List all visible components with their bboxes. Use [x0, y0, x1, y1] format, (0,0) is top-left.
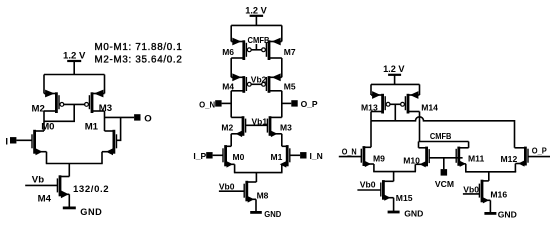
node Vb bias (amp1) — [25, 174, 57, 185]
label M9 (amp3) — [373, 154, 385, 164]
svg-text:M8: M8 — [257, 190, 269, 200]
svg-text:M4: M4 — [38, 194, 52, 205]
transistor M11 (amp3 NMOS) — [456, 147, 468, 167]
svg-text:M7: M7 — [284, 47, 296, 57]
svg-text:M2-M3: 35.64/0.2: M2-M3: 35.64/0.2 — [95, 54, 183, 65]
annotation M2-M3 sizing — [95, 54, 183, 65]
wire VDD rail (amp3) — [371, 83, 420, 85]
svg-text:132/0.2: 132/0.2 — [73, 184, 109, 195]
label M7 (amp2) — [284, 47, 296, 57]
node Vb0 bias left (amp3) — [357, 179, 381, 190]
wire tail node (amp2) — [234, 164, 283, 182]
svg-text:M0: M0 — [41, 122, 54, 133]
wire M4 source to ground (amp1) — [68, 194, 70, 208]
label M1 (amp1) — [85, 122, 99, 133]
label M6 (amp2) — [222, 47, 234, 57]
transistor M1 (amp2 NMOS) — [280, 145, 290, 168]
svg-text:GND: GND — [264, 209, 281, 219]
node VCM input (amp3) — [429, 158, 463, 189]
wire tail node (amp1) — [46, 152, 103, 177]
power VDD symbol (amp2) — [250, 16, 264, 26]
svg-text:Vb0: Vb0 — [219, 182, 235, 192]
svg-text:I_N: I_N — [310, 151, 323, 161]
annotation M0-M1 sizing — [95, 42, 183, 53]
svg-text:O_N: O_N — [342, 147, 357, 157]
node Vb0 bias right (amp3) — [463, 184, 480, 194]
svg-text:CMFB: CMFB — [248, 35, 270, 45]
svg-text:M4: M4 — [222, 82, 234, 92]
label M8 (amp2) — [257, 190, 269, 200]
label GND left (amp3) — [404, 209, 423, 219]
svg-text:M3: M3 — [99, 103, 112, 114]
power VDD symbol (amp3) — [388, 75, 401, 85]
transistor M3 (amp1 PMOS) — [85, 75, 105, 114]
wire output node to O (amp1) — [105, 116, 135, 118]
svg-text:Vb0: Vb0 — [360, 179, 376, 189]
wire M4 drain to O_N node (amp2) — [230, 91, 232, 118]
svg-text:M9: M9 — [373, 154, 385, 164]
node CMFB output wire (amp3) — [419, 141, 469, 143]
ground symbol (amp1) — [63, 206, 76, 209]
transistor M8 (amp2 NMOS) — [244, 181, 256, 203]
svg-text:M10: M10 — [403, 155, 420, 165]
label M3 (amp1) — [99, 103, 112, 114]
svg-text:1.2 V: 1.2 V — [245, 5, 267, 15]
wire M2 drain to M0 drain (amp1) — [43, 111, 45, 131]
transistor M10 (amp3 NMOS) — [415, 147, 429, 168]
label CMFB (amp3) — [430, 131, 452, 141]
wire VDD rail (amp1) — [44, 74, 105, 76]
node Vb2 bias (amp2) — [251, 74, 267, 84]
wire tail node left pair (amp3) — [373, 164, 416, 181]
wire M9/M12 drain rail with hop (amp3) — [371, 117, 515, 148]
transistor M4 (amp1 NMOS) — [57, 175, 69, 198]
power VDD symbol (amp1) — [67, 61, 81, 75]
wire mirror gates diode tap (amp3) — [389, 104, 401, 121]
wire M2 source to M0 drain (amp2) — [230, 134, 232, 147]
label GND (amp1) — [80, 207, 102, 217]
label M13 (amp3) — [361, 102, 378, 112]
node O_N output (amp2) — [199, 99, 231, 109]
wire M6 drain to M4 source (amp2) — [230, 58, 232, 77]
label M15 (amp3) — [396, 193, 413, 203]
node I_N input (amp2) — [290, 151, 323, 161]
wire M3 source to M1 drain (amp2) — [281, 134, 283, 147]
label M4 (amp1) — [38, 194, 52, 205]
node CMFB input (amp2) — [248, 35, 270, 50]
svg-text:M3: M3 — [280, 123, 292, 133]
label M0 (amp1) — [41, 122, 54, 133]
transistor M0 (amp2 NMOS) — [223, 145, 235, 168]
ground symbol right (amp3) — [484, 212, 496, 215]
power VDD 1.2V label (amp3) — [383, 64, 405, 74]
wire tail node right pair (amp3) — [465, 164, 516, 181]
wire M16 source to ground (amp3) — [489, 200, 491, 213]
transistor M15 (amp3 NMOS) — [381, 180, 394, 201]
svg-text:M12: M12 — [501, 154, 518, 164]
wire M10 drain riser (amp3) — [418, 142, 420, 148]
svg-text:M14: M14 — [421, 102, 438, 112]
label M10 (amp3) — [403, 155, 420, 165]
svg-text:GND: GND — [404, 209, 423, 219]
svg-text:M15: M15 — [396, 193, 413, 203]
svg-text:M6: M6 — [222, 47, 234, 57]
node I input (amp1) — [5, 136, 32, 147]
label M12 (amp3) — [501, 154, 518, 164]
svg-text:Vb: Vb — [32, 174, 44, 185]
svg-text:O_P: O_P — [301, 99, 318, 109]
svg-text:M0-M1: 71.88/0.1: M0-M1: 71.88/0.1 — [95, 42, 183, 53]
svg-text:1.2 V: 1.2 V — [63, 50, 86, 61]
svg-text:O: O — [144, 113, 152, 124]
svg-text:Vb2: Vb2 — [251, 74, 267, 84]
transistor M6 (amp2 PMOS) — [231, 25, 251, 60]
svg-text:GND: GND — [498, 209, 517, 219]
wire M14 drain to CMFB node (amp3) — [419, 112, 421, 142]
label M14 (amp3) — [421, 102, 438, 112]
svg-text:GND: GND — [80, 207, 102, 217]
node O_N input (amp3) — [339, 147, 362, 157]
node O output (amp1) — [134, 113, 152, 124]
label GND (amp2) — [264, 209, 281, 219]
svg-text:1.2 V: 1.2 V — [383, 64, 405, 74]
wire current-mirror gates (amp1) — [44, 104, 85, 121]
svg-text:VCM: VCM — [435, 179, 454, 189]
svg-text:Vb1: Vb1 — [252, 116, 268, 126]
label M16 (amp3) — [490, 190, 507, 200]
svg-text:M11: M11 — [468, 154, 484, 164]
label M1 (amp2) — [271, 152, 283, 162]
wire M13 drain to rail (amp3) — [370, 112, 372, 121]
wire M15 source to ground (amp3) — [393, 198, 395, 212]
power VDD 1.2V label (amp1) — [63, 50, 86, 61]
ground symbol (amp2) — [250, 211, 262, 214]
transistor M5 (amp2 PMOS) — [262, 73, 282, 92]
svg-text:I: I — [5, 136, 8, 147]
transistor M14 (amp3 PMOS) — [401, 84, 420, 113]
node Vb1 bias (amp2) — [246, 116, 268, 126]
transistor M7 (amp2 PMOS) — [262, 25, 282, 60]
transistor M1 (amp1 NMOS) — [102, 130, 117, 155]
label M4 (amp2) — [222, 82, 234, 92]
svg-text:M1: M1 — [85, 122, 99, 133]
wire VDD rail (amp2) — [231, 24, 282, 26]
svg-text:M13: M13 — [361, 102, 378, 112]
node I_P input (amp2) — [193, 151, 223, 161]
label M2 (amp2) — [221, 123, 233, 133]
wire rail to M9 drain (amp3) — [370, 121, 372, 148]
label M5 (amp2) — [284, 82, 296, 92]
transistor M2 (amp2 NMOS) — [231, 116, 245, 137]
ground symbol left (amp3) — [388, 211, 400, 214]
transistor M9 (amp3 NMOS) — [361, 146, 374, 167]
svg-text:M1: M1 — [271, 152, 283, 162]
svg-text:CMFB: CMFB — [430, 131, 452, 141]
wire M7 drain to M5 source (amp2) — [281, 58, 283, 77]
svg-text:M5: M5 — [284, 82, 296, 92]
label GND right (amp3) — [498, 209, 517, 219]
svg-text:I_P: I_P — [193, 151, 206, 161]
node Vb0 bias (amp2) — [219, 182, 245, 192]
wire M8 source to ground (amp2) — [255, 199, 257, 212]
svg-text:Vb0: Vb0 — [463, 184, 479, 194]
svg-text:O_P: O_P — [532, 145, 547, 155]
svg-text:M0: M0 — [233, 152, 245, 162]
svg-text:M2: M2 — [221, 123, 233, 133]
svg-text:M16: M16 — [490, 190, 507, 200]
transistor M0 (amp1 NMOS) — [32, 130, 47, 155]
label M4 size 132/0.2 — [73, 184, 109, 195]
wire M3 drain to output node (amp1) — [104, 111, 106, 131]
wire M5 drain to O_P node (amp2) — [281, 91, 283, 118]
wire M1 gate feedback (amp1) — [116, 117, 120, 140]
transistor M13 (amp3 PMOS) — [371, 84, 390, 113]
svg-text:M2: M2 — [32, 103, 45, 114]
transistor M2 (amp1 PMOS) — [44, 75, 64, 114]
transistor M16 (amp3 NMOS) — [479, 180, 490, 204]
label M3 (amp2) — [280, 123, 292, 133]
wire M11 drain riser (amp3) — [468, 142, 470, 148]
svg-text:O_N: O_N — [199, 99, 215, 109]
label M11 (amp3) — [468, 154, 484, 164]
power VDD 1.2V label (amp2) — [245, 5, 267, 15]
label M0 (amp2) — [233, 152, 245, 162]
label M2 (amp1) — [32, 103, 45, 114]
node O_P output (amp2) — [282, 99, 318, 109]
node O_P input (amp3) — [528, 145, 550, 156]
transistor M4 (amp2 PMOS) — [231, 73, 251, 92]
transistor M12 (amp3 NMOS) — [515, 147, 529, 167]
transistor M3 (amp2 NMOS) — [267, 116, 281, 137]
